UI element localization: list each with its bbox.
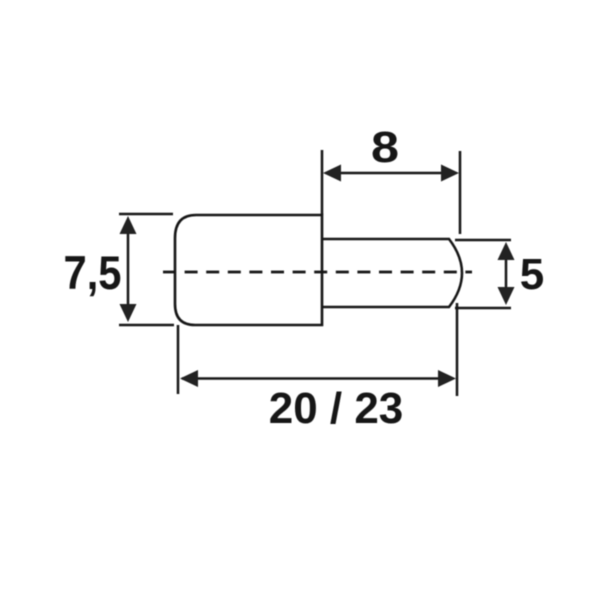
pin shaft (small cylinder with convex end) bbox=[322, 239, 462, 307]
dimension 7,5: top arrowhead bbox=[120, 216, 137, 234]
dimension 20/23: left arrowhead bbox=[180, 370, 198, 387]
dimension 5: bottom arrowhead bbox=[498, 287, 515, 305]
dimension 8: left extension line bbox=[321, 150, 324, 215]
pin body (large cylinder, rounded left end) bbox=[175, 215, 322, 325]
dimension 5: bottom extension line bbox=[455, 307, 511, 310]
dimension 7,5: bottom arrowhead bbox=[120, 304, 137, 322]
dimension 8: right arrowhead bbox=[441, 165, 459, 182]
svg-text:20 / 23: 20 / 23 bbox=[269, 384, 404, 433]
dimension 20/23: dimension line bbox=[182, 377, 453, 380]
dimension 5: top extension line bbox=[455, 239, 511, 242]
dimension 7,5: top extension line bbox=[119, 213, 173, 216]
dimension 20/23: right arrowhead bbox=[438, 370, 456, 387]
dimension 8: left arrowhead bbox=[323, 165, 341, 182]
dimension 8: dimension line bbox=[326, 172, 456, 175]
dimension 20/23: left extension line bbox=[177, 325, 180, 394]
svg-text:7,5: 7,5 bbox=[64, 246, 122, 299]
dimension 20/23: right extension line bbox=[456, 303, 459, 396]
svg-text:8: 8 bbox=[371, 123, 399, 172]
dimension 5: top arrowhead bbox=[498, 242, 515, 260]
dimension 8: right extension line bbox=[459, 151, 462, 234]
dimension 7,5: dimension line bbox=[127, 220, 130, 319]
dimension 5: dimension line bbox=[505, 245, 508, 302]
centerline (dashed axis) bbox=[163, 271, 472, 274]
dimension 7,5: bottom extension line bbox=[119, 324, 174, 327]
svg-text:5: 5 bbox=[520, 250, 544, 299]
